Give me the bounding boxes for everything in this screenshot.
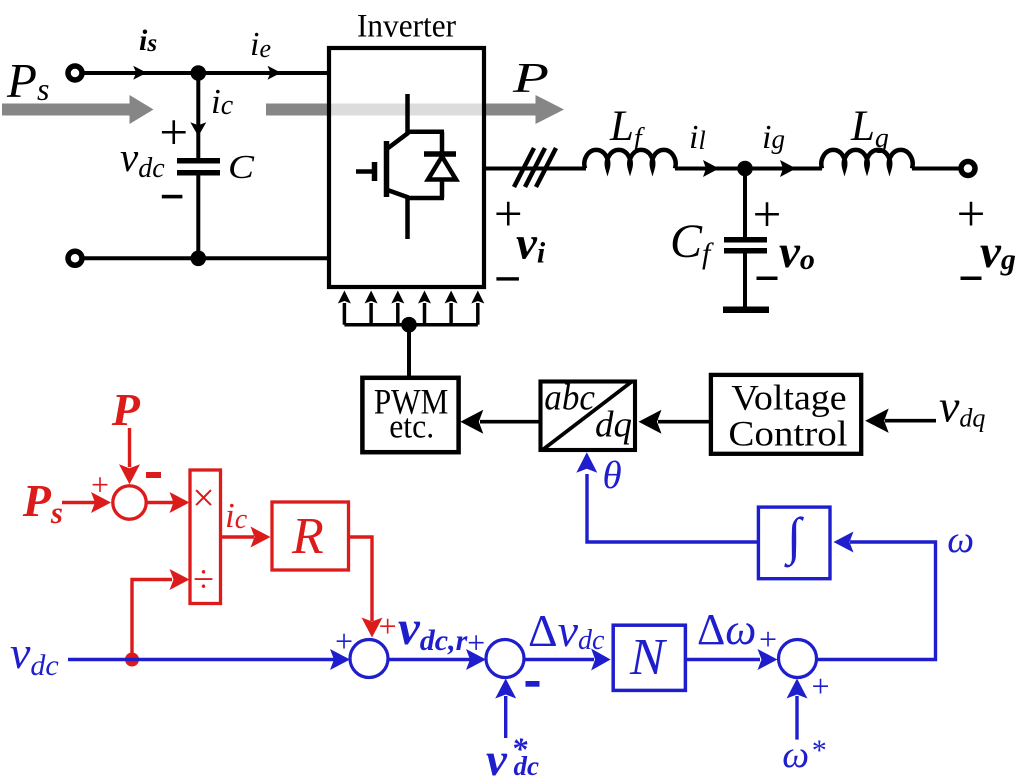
inductor Lg: [821, 150, 912, 169]
svg-text:P: P: [111, 384, 141, 435]
gate arrows into inverter: [338, 291, 484, 325]
wire Lf to node: [675, 167, 745, 171]
arrowhead Ps into summer: [91, 492, 111, 513]
wire N to B3: [687, 658, 760, 661]
label minus (P input): [146, 472, 161, 478]
terminal grid: [961, 162, 975, 176]
summer B1 (vdc reference): [350, 640, 388, 678]
block PWM etc: [362, 378, 458, 452]
arrowhead into N: [591, 649, 611, 671]
svg-text:∫: ∫: [784, 508, 804, 567]
wire node to Lg: [745, 167, 822, 171]
block R (virtual resistance): [272, 502, 349, 570]
arrowhead il: [703, 160, 719, 177]
terminal dc top: [68, 66, 82, 80]
svg-text:+: +: [811, 668, 829, 704]
arrowhead P into summer: [119, 464, 140, 484]
block N (droop gain): [613, 625, 685, 690]
svg-text:dq: dq: [595, 405, 632, 446]
transistor IGBT collector diagonal: [388, 133, 409, 149]
svg-text:+: +: [759, 621, 777, 657]
wire vdc to summer B1: [68, 658, 334, 661]
svg-text:+: +: [753, 187, 782, 243]
svg-text:dc: dc: [514, 751, 540, 779]
wire ac output from inverter: [484, 167, 586, 171]
wire Voltage Control to abc/dq: [658, 420, 710, 424]
svg-text:×: ×: [192, 475, 215, 520]
diode freewheel bottom lead: [440, 180, 445, 199]
wire dc top rail: [83, 71, 329, 75]
arrowhead into integrator: [834, 532, 854, 553]
wire omega* to B3: [795, 696, 798, 740]
arrowhead is: [133, 66, 147, 80]
wire vdc* to B2: [504, 696, 507, 738]
transistor IGBT gate lead: [356, 169, 374, 174]
label minus (vdc* input): [526, 681, 540, 687]
wire B1 to B2: [388, 658, 470, 661]
wire abc/dq to PWM: [480, 420, 540, 424]
svg-text:+: +: [379, 608, 397, 644]
transistor IGBT gate bar: [372, 162, 378, 181]
arrowhead ic: [190, 122, 206, 136]
arrowhead omega* into B3: [787, 679, 808, 699]
arrowhead ig: [780, 160, 796, 177]
capacitor Cf top wire: [743, 169, 747, 238]
arrowhead into PWM: [460, 410, 483, 434]
wire vdq to Voltage Control: [885, 419, 936, 423]
svg-text:C: C: [228, 149, 254, 186]
inverter box U1: [329, 48, 484, 287]
label minus (vi): [496, 277, 519, 280]
svg-text:P: P: [512, 56, 549, 102]
block multiply-divide: [190, 470, 221, 604]
terminal dc bottom: [68, 251, 82, 265]
wire integrator to abc/dq: [587, 474, 758, 542]
svg-text:*: *: [810, 734, 825, 767]
wire capacitor top: [196, 73, 200, 158]
svg-text:Inverter: Inverter: [357, 8, 456, 44]
transistor IGBT top horizontal: [406, 129, 445, 134]
svg-text:ω: ω: [782, 734, 809, 776]
wire Lg to grid terminal: [912, 167, 960, 171]
svg-text:Δω: Δω: [697, 605, 756, 654]
wire B2 to N: [524, 658, 594, 661]
label minus (vo): [757, 277, 778, 281]
arrowhead into B1: [330, 649, 350, 670]
capacitor Cf end bar: [723, 307, 769, 314]
capacitor Cf bottom wire: [743, 254, 747, 310]
node dc top junction: [191, 65, 207, 81]
wire summer to multiplier: [146, 501, 174, 504]
wire capacitor bottom: [196, 176, 200, 259]
summer B2 (dc error): [486, 640, 524, 678]
svg-text:ω: ω: [947, 519, 974, 561]
wire multiplier to R: [221, 535, 255, 538]
wire dc bottom rail: [83, 256, 329, 260]
svg-text:abc: abc: [544, 378, 595, 419]
capacitor C plates: [177, 158, 220, 176]
summer B3 (frequency): [779, 640, 817, 678]
svg-text:etc.: etc.: [389, 409, 434, 446]
gate-signal bus line: [344, 323, 477, 327]
arrowhead into divider: [170, 569, 190, 590]
arrowhead into B3: [758, 649, 778, 670]
summer S1 (power error): [113, 486, 146, 519]
wire R to summer B1: [349, 537, 373, 621]
diode freewheel cathode bar: [424, 151, 456, 157]
arrowhead R output into B1: [362, 618, 383, 638]
node gate bus junction: [401, 317, 417, 333]
transistor IGBT collector lead: [405, 94, 410, 134]
transistor IGBT emitter diagonal: [388, 190, 409, 198]
svg-text:v: v: [486, 734, 508, 779]
block Voltage Control: [711, 375, 861, 454]
arrowhead into R: [251, 527, 271, 548]
node vdc tap (red): [125, 653, 139, 667]
transistor IGBT body bar: [384, 141, 390, 197]
diode freewheel triangle: [428, 157, 456, 180]
node filter junction: [737, 161, 753, 177]
svg-text:Voltage: Voltage: [731, 378, 846, 418]
wire Ps to summer: [62, 501, 95, 504]
label minus (vdc): [162, 195, 183, 199]
arrowhead into abc/dq: [639, 410, 662, 434]
transistor IGBT bottom horizontal: [406, 196, 445, 201]
svg-text:Control: Control: [728, 414, 847, 454]
wire P down to summer: [128, 428, 131, 467]
wire gate bus to PWM: [407, 325, 411, 378]
svg-text:N: N: [629, 629, 668, 686]
block integrator: [758, 507, 830, 579]
node dc bottom junction: [191, 250, 207, 266]
diode freewheel top lead: [440, 132, 445, 152]
svg-text:÷: ÷: [193, 559, 214, 601]
power-flow arrow P (gray, lighter behind inverter): [266, 95, 564, 124]
svg-text:R: R: [291, 508, 324, 565]
label minus (vg): [961, 277, 982, 281]
wire B3 to integrator: [817, 542, 936, 660]
inductor Lf: [584, 150, 675, 169]
wire vdc tap to divider: [132, 580, 172, 660]
arrowhead into Voltage Control: [865, 409, 889, 433]
arrowhead theta into abc/dq: [576, 452, 597, 472]
svg-text:+: +: [467, 625, 485, 661]
capacitor Cf plates: [724, 237, 767, 254]
svg-text:θ: θ: [603, 454, 622, 497]
arrowhead ie: [268, 66, 282, 80]
arrowhead vdc* into B2: [495, 679, 516, 699]
svg-text:ig: ig: [762, 119, 785, 156]
power-flow arrow Ps (gray): [2, 95, 154, 124]
arrowhead into B2: [466, 649, 486, 670]
block abc/dq: [541, 378, 636, 450]
arrowhead into multiplier: [170, 492, 190, 513]
three-phase slash marks: [514, 148, 556, 187]
transistor IGBT emitter lead: [405, 198, 410, 239]
